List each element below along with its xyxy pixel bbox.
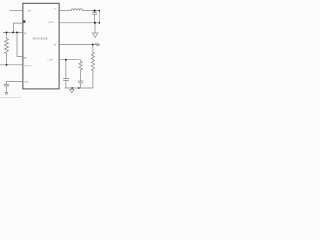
node rail dot 2 <box>78 87 80 89</box>
ground (bottom center) <box>71 88 73 89</box>
node B (EN rail dot 2) <box>12 31 14 33</box>
wire PGND (right pin 2) <box>59 22 100 24</box>
svg-text:GND: GND <box>24 81 29 83</box>
resistor R2 (feedback top, horizontal, cut at edge) <box>93 43 100 46</box>
resistor R3 (feedback bottom, vertical) <box>91 45 94 89</box>
node A (EN rail dot 1) <box>6 31 8 33</box>
node rail dot 1 <box>71 87 73 89</box>
inductor L1 <box>71 9 82 11</box>
wire LX (right pin 1) <box>59 10 71 12</box>
wire GND pin (left pin 6) <box>6 81 23 83</box>
wire FB (right pin 3) <box>59 44 93 46</box>
wire edge rail VOUT <box>98 11 100 23</box>
ground (right, below PGND) <box>94 23 96 33</box>
svg-text:PGND: PGND <box>48 22 54 24</box>
wire to INB pin (vertical drop) <box>17 32 23 56</box>
wire PGOOD (left pin 5) <box>0 64 23 66</box>
node edge PGND <box>99 22 101 24</box>
node PGND junction <box>94 22 96 24</box>
wire IN2 (left pin 2 with corner) <box>13 23 23 32</box>
wire ground rail (bottom right) <box>65 87 93 89</box>
wire COMP (right pin 4) <box>59 59 81 61</box>
node C (EN rail dot 3) <box>16 31 18 33</box>
node D (PGOOD resistor junction) <box>6 64 8 66</box>
capacitor C4 (comp series) <box>78 80 83 82</box>
ground (bottom left) <box>5 93 8 95</box>
wire VOUT <box>83 10 101 12</box>
background <box>0 0 100 100</box>
svg-text:PGOOD: PGOOD <box>24 66 32 68</box>
node FB junction <box>92 44 94 46</box>
node COMP junction <box>65 59 67 61</box>
node VOUT junction <box>94 10 96 12</box>
capacitor C1 (bottom left) <box>5 82 7 85</box>
node edge VOUT <box>99 10 101 12</box>
capacitor C3 (comp parallel) <box>65 60 67 79</box>
pin label IN dark blob <box>23 20 26 23</box>
resistor R1 (left pull) <box>5 32 9 64</box>
wire IN (left pin 1) <box>10 10 23 12</box>
resistor R4 (comp series) <box>79 60 82 81</box>
svg-text:IN: IN <box>23 21 26 24</box>
wire EN rail (left pin 3) <box>3 31 23 33</box>
wire faint footer <box>0 97 22 99</box>
op-amp U1 (IC box MAX15108) <box>23 3 59 89</box>
capacitor C2 (output) <box>94 11 96 13</box>
pin labels <box>23 9 57 84</box>
svg-text:COMP: COMP <box>48 59 54 61</box>
svg-text:MAX15108: MAX15108 <box>33 36 48 40</box>
